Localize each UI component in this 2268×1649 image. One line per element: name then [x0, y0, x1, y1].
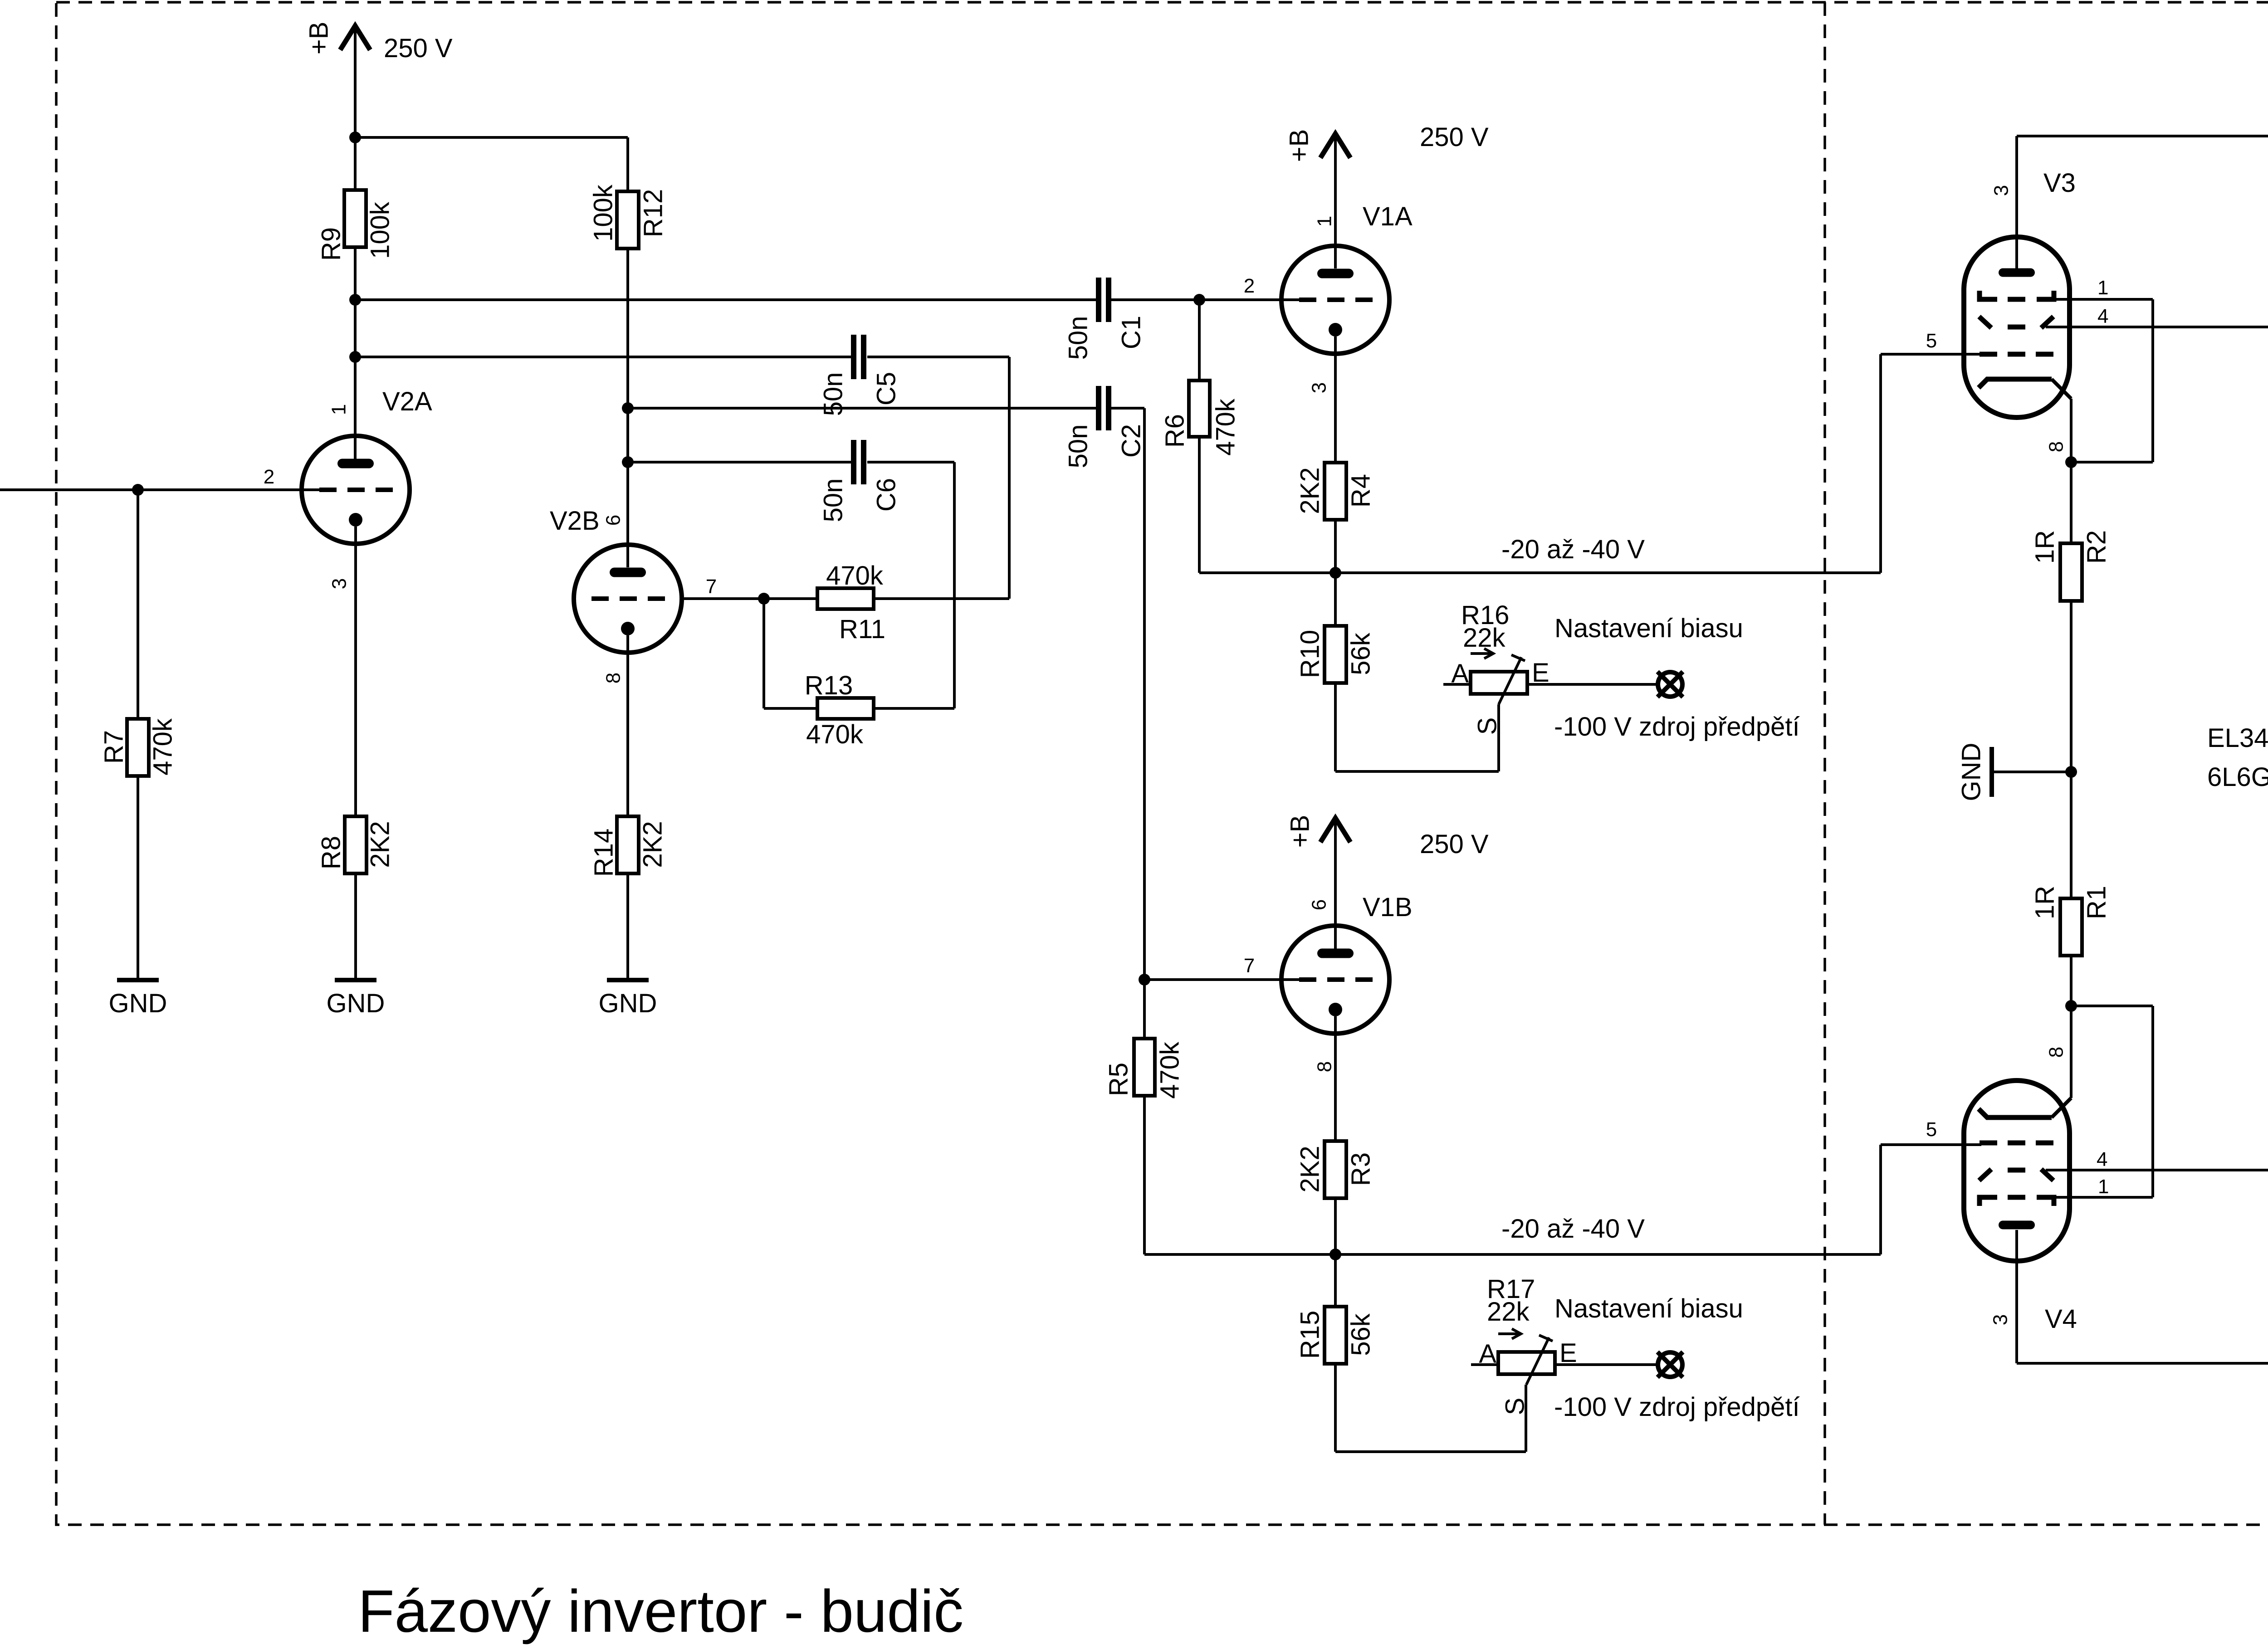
- svg-text:4: 4: [2097, 305, 2108, 327]
- svg-text:1R: 1R: [2030, 886, 2060, 919]
- svg-text:-100 V zdroj předpětí: -100 V zdroj předpětí: [1554, 1392, 1800, 1422]
- svg-text:7: 7: [706, 576, 717, 598]
- svg-text:C5: C5: [872, 372, 901, 405]
- svg-text:V2B: V2B: [550, 506, 600, 536]
- svg-text:GND: GND: [109, 989, 167, 1018]
- svg-text:V3: V3: [2043, 168, 2076, 198]
- svg-text:2: 2: [1244, 275, 1255, 297]
- svg-text:E: E: [1559, 1338, 1577, 1368]
- svg-text:3: 3: [1308, 382, 1330, 393]
- svg-text:56k: 56k: [1346, 1313, 1376, 1356]
- svg-text:-100 V zdroj předpětí: -100 V zdroj předpětí: [1554, 712, 1800, 742]
- svg-text:R15: R15: [1295, 1311, 1325, 1359]
- svg-text:1: 1: [328, 404, 350, 415]
- svg-text:100k: 100k: [589, 184, 618, 242]
- svg-text:470k: 470k: [806, 720, 864, 749]
- svg-text:Nastavení biasu: Nastavení biasu: [1554, 1294, 1743, 1323]
- svg-text:250 V: 250 V: [1420, 829, 1489, 859]
- svg-text:1: 1: [1314, 216, 1336, 227]
- svg-text:R13: R13: [805, 671, 853, 700]
- svg-text:+B: +B: [1286, 815, 1315, 848]
- svg-text:C2: C2: [1117, 424, 1146, 458]
- svg-text:R3: R3: [1346, 1152, 1376, 1186]
- svg-text:2: 2: [264, 466, 274, 488]
- svg-text:Fázový invertor - budič: Fázový invertor - budič: [358, 1578, 963, 1644]
- svg-text:A: A: [1451, 659, 1469, 688]
- svg-text:470k: 470k: [148, 718, 178, 776]
- svg-text:GND: GND: [327, 989, 385, 1018]
- svg-text:22k: 22k: [1463, 623, 1506, 653]
- svg-text:4: 4: [2097, 1148, 2107, 1171]
- svg-text:5: 5: [1926, 1118, 1937, 1141]
- svg-text:C1: C1: [1117, 316, 1146, 349]
- svg-text:A: A: [1479, 1339, 1496, 1369]
- svg-text:R5: R5: [1104, 1063, 1134, 1096]
- svg-text:3: 3: [1990, 185, 2013, 196]
- svg-text:R1: R1: [2082, 886, 2112, 919]
- svg-text:V1A: V1A: [1363, 202, 1413, 231]
- svg-text:1: 1: [2098, 1176, 2109, 1198]
- svg-text:22k: 22k: [1487, 1297, 1530, 1327]
- svg-text:3: 3: [328, 578, 351, 589]
- svg-text:7: 7: [1244, 955, 1255, 977]
- svg-text:R6: R6: [1160, 414, 1190, 448]
- svg-text:R10: R10: [1295, 630, 1325, 678]
- svg-text:3: 3: [1989, 1314, 2012, 1325]
- svg-text:R4: R4: [1346, 474, 1376, 507]
- svg-text:2K2: 2K2: [366, 821, 395, 868]
- svg-text:8: 8: [2045, 441, 2068, 452]
- svg-text:50n: 50n: [819, 372, 848, 416]
- svg-text:EL34, 6P3S: 2x 48 mA: EL34, 6P3S: 2x 48 mA: [2207, 723, 2268, 753]
- svg-text:R11: R11: [839, 615, 885, 644]
- svg-text:R9: R9: [317, 227, 346, 261]
- svg-text:50n: 50n: [819, 478, 848, 522]
- svg-text:+B: +B: [304, 22, 334, 55]
- svg-text:250 V: 250 V: [1420, 122, 1489, 152]
- svg-text:+B: +B: [1285, 129, 1314, 162]
- svg-text:GND: GND: [599, 989, 657, 1018]
- svg-text:5: 5: [1926, 330, 1937, 352]
- svg-text:V4: V4: [2045, 1304, 2077, 1334]
- svg-text:50n: 50n: [1064, 316, 1093, 360]
- svg-text:-20 až -40 V: -20 až -40 V: [1501, 535, 1645, 564]
- svg-text:S: S: [1501, 1398, 1530, 1415]
- svg-text:Nastavení biasu: Nastavení biasu: [1554, 614, 1743, 643]
- svg-text:-20 až -40 V: -20 až -40 V: [1501, 1214, 1645, 1244]
- svg-text:GND: GND: [1957, 743, 1986, 801]
- svg-text:6L6GC: 2x 65 mA: 6L6GC: 2x 65 mA: [2207, 762, 2268, 792]
- svg-text:V1B: V1B: [1363, 893, 1413, 922]
- svg-text:6: 6: [1308, 899, 1330, 910]
- svg-text:470k: 470k: [1211, 398, 1241, 456]
- svg-text:470k: 470k: [1155, 1041, 1185, 1099]
- svg-text:8: 8: [1314, 1061, 1336, 1072]
- svg-text:250 V: 250 V: [384, 34, 453, 63]
- svg-text:R2: R2: [2082, 530, 2112, 564]
- svg-text:E: E: [1532, 658, 1549, 688]
- svg-text:2K2: 2K2: [638, 821, 668, 868]
- svg-text:100k: 100k: [366, 201, 395, 259]
- svg-text:6: 6: [602, 515, 625, 526]
- svg-text:R12: R12: [639, 189, 668, 237]
- svg-text:8: 8: [602, 673, 625, 683]
- svg-text:2K2: 2K2: [1295, 1146, 1325, 1192]
- svg-text:S: S: [1473, 717, 1502, 735]
- svg-text:8: 8: [2045, 1047, 2068, 1058]
- svg-text:R8: R8: [317, 836, 346, 869]
- svg-text:2K2: 2K2: [1295, 467, 1325, 514]
- svg-text:50n: 50n: [1064, 424, 1093, 468]
- svg-text:C6: C6: [872, 478, 901, 512]
- svg-text:R7: R7: [99, 730, 129, 764]
- svg-text:1R: 1R: [2030, 530, 2060, 564]
- svg-text:R14: R14: [589, 829, 619, 877]
- svg-text:V2A: V2A: [382, 387, 432, 416]
- svg-text:470k: 470k: [826, 561, 884, 590]
- svg-text:56k: 56k: [1346, 632, 1376, 675]
- svg-text:1: 1: [2097, 277, 2108, 299]
